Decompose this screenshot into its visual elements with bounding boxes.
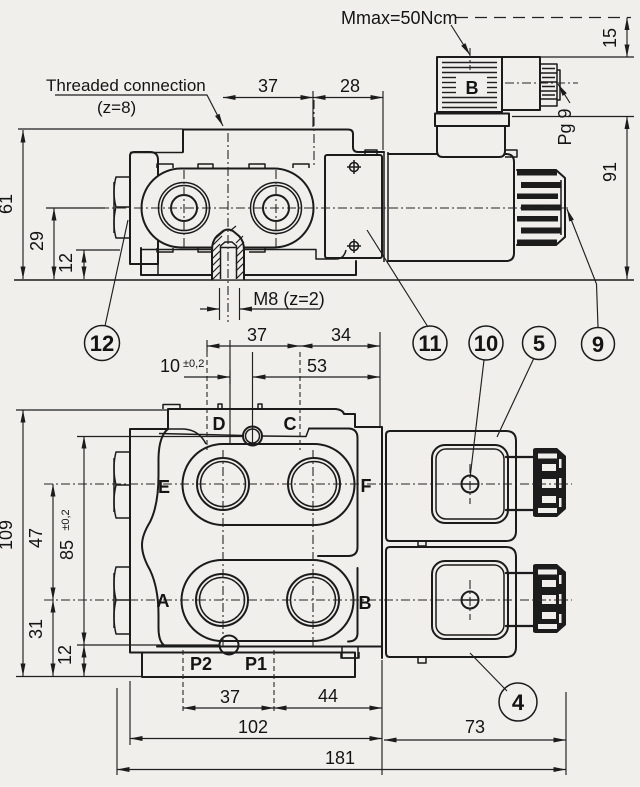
svg-text:91: 91: [600, 162, 620, 182]
svg-text:47: 47: [26, 528, 46, 548]
svg-text:(z=8): (z=8): [97, 98, 136, 117]
svg-text:12: 12: [55, 645, 75, 665]
svg-text:102: 102: [238, 717, 268, 737]
svg-text:9: 9: [592, 332, 604, 357]
svg-text:10: 10: [474, 331, 498, 356]
svg-text:12: 12: [90, 331, 114, 356]
svg-text:5: 5: [533, 331, 545, 356]
svg-text:53: 53: [307, 356, 327, 376]
svg-text:Mmax=50Ncm: Mmax=50Ncm: [341, 8, 458, 28]
svg-text:37: 37: [220, 687, 240, 707]
svg-text:Threaded connection: Threaded connection: [46, 76, 206, 95]
svg-text:85: 85: [57, 540, 77, 560]
svg-text:12: 12: [56, 253, 76, 273]
svg-text:C: C: [284, 414, 297, 434]
svg-text:4: 4: [512, 690, 525, 715]
svg-text:F: F: [361, 476, 372, 496]
svg-text:31: 31: [26, 619, 46, 639]
svg-text:15: 15: [600, 28, 620, 48]
svg-text:61: 61: [0, 194, 16, 214]
svg-text:10: 10: [160, 356, 180, 376]
svg-text:±0,2: ±0,2: [60, 509, 72, 530]
svg-text:28: 28: [340, 76, 360, 96]
svg-text:73: 73: [465, 717, 485, 737]
svg-text:A: A: [157, 591, 170, 611]
svg-text:M8 (z=2): M8 (z=2): [253, 289, 325, 309]
svg-text:11: 11: [418, 331, 441, 356]
svg-text:D: D: [213, 414, 226, 434]
svg-text:29: 29: [27, 231, 47, 251]
svg-text:34: 34: [331, 325, 351, 345]
svg-text:P1: P1: [245, 654, 267, 674]
svg-text:Pg 9: Pg 9: [555, 108, 575, 145]
svg-text:37: 37: [247, 325, 267, 345]
svg-text:E: E: [158, 477, 170, 497]
svg-text:181: 181: [325, 748, 355, 768]
svg-text:44: 44: [318, 686, 338, 706]
svg-text:B: B: [466, 78, 479, 98]
svg-text:P2: P2: [190, 654, 212, 674]
svg-text:B: B: [359, 593, 372, 613]
svg-text:37: 37: [258, 76, 278, 96]
svg-text:109: 109: [0, 520, 16, 550]
svg-text:±0,2: ±0,2: [183, 358, 204, 370]
